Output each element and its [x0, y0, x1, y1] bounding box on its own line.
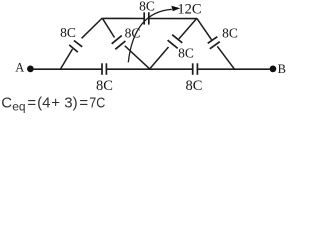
wire cap2 to B: [197, 68, 269, 70]
svg-text:7C: 7C: [89, 95, 105, 112]
capacitor C6 8C lower plate: [168, 40, 178, 48]
wire right diagonal lower segment: [217, 46, 234, 69]
wire right diagonal upper segment: [197, 18, 212, 39]
capacitor C7 8C upper plate: [208, 37, 218, 44]
svg-text:8C: 8C: [186, 78, 203, 94]
arrowhead of 12C arrow: [171, 6, 180, 11]
arrow arc from middle capacitor to 12C: [128, 9, 172, 62]
capacitor C3 8C upper plate: [74, 41, 82, 47]
capacitor C2 8C left plate: [192, 63, 194, 75]
svg-text:A: A: [15, 60, 24, 74]
wire left diagonal lower segment: [61, 49, 73, 69]
node A dot: [27, 66, 34, 73]
wire middle-right diagonal upper segment: [179, 18, 197, 39]
wire middle-left diagonal lower segment: [125, 46, 150, 69]
node B dot: [270, 66, 277, 73]
svg-text:C: C: [1, 95, 12, 112]
svg-text:8C: 8C: [125, 25, 141, 40]
wire A to cap1: [34, 68, 102, 70]
svg-text:(4: (4: [37, 95, 50, 112]
svg-text:B: B: [278, 62, 286, 76]
svg-text:=: =: [79, 95, 88, 112]
capacitor C4 8C/12C left plate: [143, 12, 145, 24]
svg-text:8C: 8C: [139, 0, 155, 14]
wire cap1 to cap2: [106, 68, 192, 70]
capacitor C5 8C upper plate: [112, 36, 122, 44]
svg-text:8C: 8C: [178, 46, 194, 61]
wire middle-right diagonal lower segment: [150, 47, 169, 69]
capacitor C2 8C right plate: [196, 63, 198, 75]
svg-text:3): 3): [64, 95, 77, 112]
svg-text:12C: 12C: [177, 1, 201, 17]
capacitor C1 8C left plate: [101, 63, 103, 75]
capacitor C1 8C right plate: [105, 63, 107, 75]
svg-text:eq: eq: [12, 99, 25, 113]
wire top right segment: [149, 18, 197, 20]
capacitor C6 8C upper plate: [172, 35, 182, 43]
svg-text:+: +: [51, 95, 60, 112]
wire middle-left diagonal upper segment: [102, 18, 114, 37]
capacitor C7 8C lower plate: [210, 42, 220, 49]
svg-text:=: =: [27, 95, 36, 112]
svg-text:8C: 8C: [96, 78, 113, 94]
svg-text:8C: 8C: [222, 26, 238, 41]
wire left diagonal upper segment: [82, 18, 103, 38]
capacitor C3 8C lower plate: [69, 45, 78, 52]
wire top left segment: [102, 17, 144, 19]
svg-text:8C: 8C: [60, 25, 76, 40]
capacitor C4 8C/12C right plate: [148, 12, 150, 24]
capacitor C5 8C lower plate: [115, 41, 125, 49]
